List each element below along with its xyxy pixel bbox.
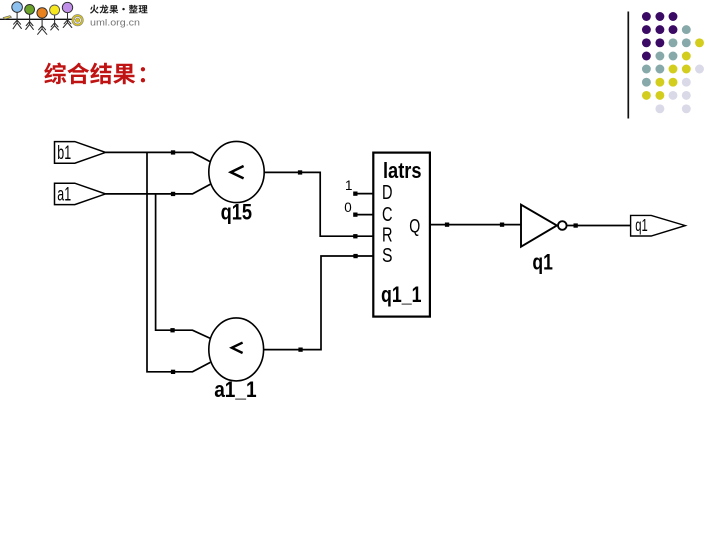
svg-text:a1_1: a1_1	[214, 377, 257, 402]
svg-text:q1: q1	[532, 250, 553, 275]
svg-text:Q: Q	[409, 216, 420, 238]
svg-text:0: 0	[344, 200, 351, 215]
svg-text:b1: b1	[57, 143, 71, 164]
svg-text:q1: q1	[635, 215, 648, 235]
svg-text:D: D	[382, 181, 393, 204]
svg-text:a1: a1	[57, 184, 71, 205]
svg-text:q15: q15	[221, 200, 253, 225]
svg-text:q1_1: q1_1	[381, 282, 422, 307]
svg-text:1: 1	[345, 178, 352, 193]
svg-text:uml.org.cn: uml.org.cn	[90, 17, 140, 28]
svg-text:S: S	[382, 244, 393, 267]
svg-text:latrs: latrs	[383, 158, 422, 183]
